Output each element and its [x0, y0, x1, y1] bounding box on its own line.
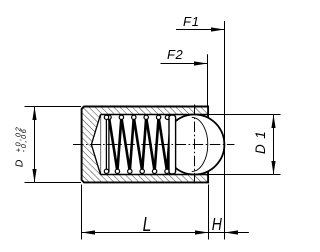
svg-text:F2: F2	[167, 47, 184, 62]
svg-text:L: L	[143, 213, 152, 235]
svg-text:H: H	[212, 215, 222, 235]
svg-text:F1: F1	[183, 14, 200, 29]
svg-text:-0,06: -0,06	[19, 128, 28, 153]
svg-text:D1: D1	[253, 126, 268, 154]
svg-text:D: D	[14, 159, 26, 167]
